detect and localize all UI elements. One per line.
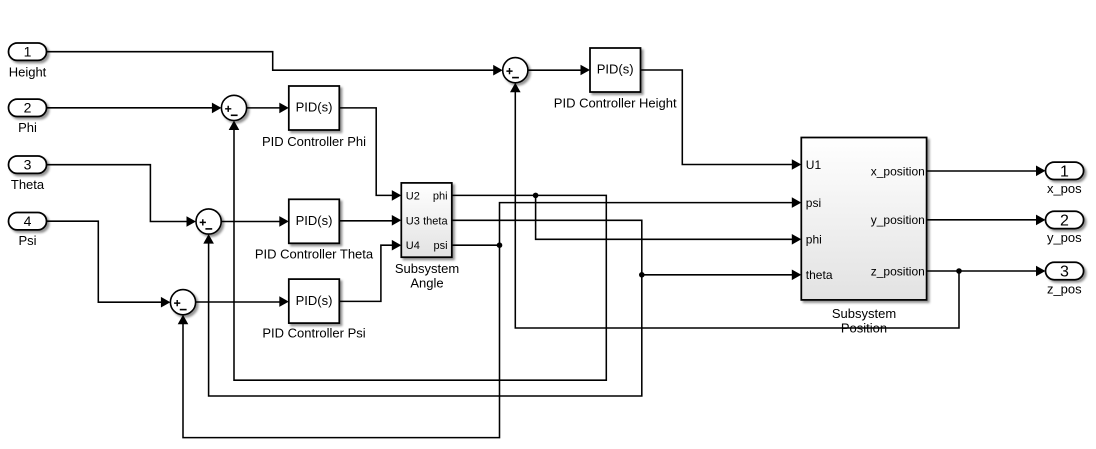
wire: y_position output to outport 2 <box>927 215 1046 226</box>
wire: Height inport to Height sum junction <box>47 52 503 76</box>
sum junction (+/-) for Theta <box>196 209 221 234</box>
svg-text:Psi: Psi <box>18 233 36 248</box>
svg-text:PID(s): PID(s) <box>597 62 634 77</box>
svg-text:PID(s): PID(s) <box>296 293 333 308</box>
svg-text:PID Controller Theta: PID Controller Theta <box>255 246 374 261</box>
svg-text:U4: U4 <box>406 240 420 252</box>
svg-text:z_position: z_position <box>871 264 925 278</box>
wire: Psi inport to Psi sum junction <box>47 221 171 307</box>
inport 2 (Phi) <box>9 99 47 135</box>
wire: z_position output to outport 3 <box>927 266 1046 277</box>
svg-text:PID Controller Phi: PID Controller Phi <box>262 134 366 149</box>
outport 1 (x_pos) <box>1046 162 1084 196</box>
svg-text:phi: phi <box>433 190 448 202</box>
wire: Subsystem Angle psi output to junction <box>452 244 500 246</box>
svg-text:PID Controller Psi: PID Controller Psi <box>262 326 365 341</box>
svg-text:theta: theta <box>806 268 833 282</box>
sum junction (+/-) for Psi <box>170 290 195 315</box>
wire: psi branch down feedback to Psi sum <box>178 245 500 437</box>
svg-text:Subsystem: Subsystem <box>395 261 459 276</box>
outport 3 (z_pos) <box>1046 262 1084 296</box>
inport 3 (Theta) <box>9 156 47 192</box>
svg-text:3: 3 <box>1060 264 1069 281</box>
svg-text:y_position: y_position <box>871 213 925 227</box>
svg-text:y_pos: y_pos <box>1047 230 1082 245</box>
svg-text:2: 2 <box>1060 212 1069 229</box>
wire: psi branch up to Subsystem Position psi input <box>500 197 802 245</box>
svg-text:theta: theta <box>423 215 448 227</box>
wire: Subsystem Angle theta output feedback to Theta sum (via right drop) <box>203 220 642 396</box>
wire: x_position output to outport 1 <box>927 166 1046 177</box>
wire: PID Controller Psi to Subsystem Angle U4 input <box>339 240 401 302</box>
subsystem block: Subsystem Position <box>801 138 926 336</box>
svg-text:psi: psi <box>806 196 821 210</box>
svg-text:2: 2 <box>24 100 32 116</box>
PID controller block: PID Controller Phi <box>262 86 366 149</box>
svg-text:Phi: Phi <box>18 120 37 135</box>
svg-text:Theta: Theta <box>11 177 45 192</box>
inport 1 (Height) <box>9 43 47 79</box>
svg-text:U3: U3 <box>406 215 420 227</box>
svg-text:PID(s): PID(s) <box>296 213 333 228</box>
sum junction (+/-) for Height <box>503 58 528 83</box>
wire: Theta sum to PID Controller Theta <box>221 216 289 227</box>
junction node: theta branch <box>639 272 645 278</box>
svg-text:Angle: Angle <box>410 275 443 290</box>
wire: phi branch to Subsystem Position phi input <box>536 195 802 244</box>
svg-text:U2: U2 <box>406 190 420 202</box>
svg-text:psi: psi <box>434 240 448 252</box>
wire: Theta inport to Theta sum junction <box>47 165 197 227</box>
junction node: z_position feedback tap <box>956 268 962 274</box>
svg-text:1: 1 <box>24 44 32 60</box>
svg-text:z_pos: z_pos <box>1047 281 1082 296</box>
svg-text:x_pos: x_pos <box>1047 181 1082 196</box>
inport 4 (Psi) <box>9 213 47 249</box>
svg-text:x_position: x_position <box>871 164 925 178</box>
PID controller block: PID Controller Height <box>554 48 677 110</box>
PID controller block: PID Controller Psi <box>262 279 365 340</box>
svg-text:Subsystem: Subsystem <box>832 306 896 321</box>
svg-text:PID(s): PID(s) <box>296 100 333 115</box>
junction node: phi branch <box>533 193 539 199</box>
sum junction (+/-) for Phi <box>221 95 246 120</box>
wire: Phi sum to PID Controller Phi <box>247 103 289 114</box>
subsystem block: Subsystem Angle <box>395 183 459 290</box>
svg-text:3: 3 <box>24 157 32 173</box>
svg-text:Height: Height <box>9 64 47 79</box>
svg-text:phi: phi <box>806 233 822 247</box>
svg-text:U1: U1 <box>806 158 822 172</box>
junction node: psi branch <box>497 242 503 248</box>
wire: PID Controller Height to Subsystem Position U1 input <box>641 70 802 170</box>
wire: Height sum to PID Controller Height <box>528 65 590 76</box>
wire: z_position feedback to Height sum <box>510 83 959 328</box>
PID controller block: PID Controller Theta <box>255 199 374 261</box>
wire: Phi inport to Phi sum junction <box>47 103 222 114</box>
wire: Subsystem Angle phi output feedback to Phi sum (via right drop) <box>229 121 607 381</box>
wire: theta branch to Subsystem Position theta input <box>642 270 802 281</box>
wire: Psi sum to PID Controller Psi <box>196 296 289 307</box>
outport 2 (y_pos) <box>1046 211 1084 245</box>
svg-text:4: 4 <box>24 213 32 229</box>
svg-text:PID Controller Height: PID Controller Height <box>554 95 677 110</box>
wire: PID Controller Theta to Subsystem Angle U3 input <box>339 215 401 226</box>
svg-text:1: 1 <box>1060 163 1069 180</box>
wire: PID Controller Phi to Subsystem Angle U2 input <box>339 108 401 201</box>
